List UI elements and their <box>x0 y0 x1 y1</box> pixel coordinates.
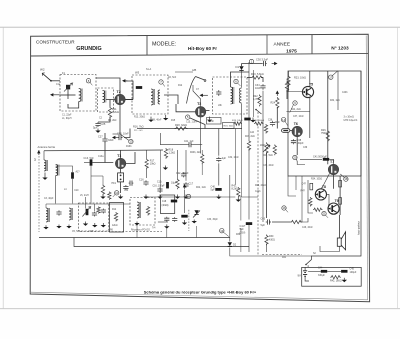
transistor T9 <box>328 199 340 214</box>
test point 1 <box>249 59 253 63</box>
ground R19 <box>175 195 180 199</box>
value R26 <box>321 132 327 135</box>
diode D1 <box>239 66 243 70</box>
svg-text:10kΩ: 10kΩ <box>150 163 156 166</box>
value label R15 <box>171 120 176 122</box>
value label R32, 1kΩ <box>330 100 340 102</box>
wire R23 up <box>288 71 290 76</box>
ground R18 bottom <box>157 195 162 199</box>
dashed to switch <box>262 254 302 256</box>
resistor R17 <box>201 154 204 165</box>
wire D1 up <box>241 64 243 67</box>
dashed bus y231.6 <box>80 231 162 233</box>
svg-text:C19,: C19, <box>157 181 162 184</box>
label D1 <box>236 65 240 69</box>
wire tp6 pointer <box>238 83 241 86</box>
page edge top <box>0 26 400 28</box>
wire R2 up <box>91 176 103 185</box>
capacitor in osc box 2 <box>92 212 97 217</box>
label C43 <box>261 218 266 221</box>
test point 10 <box>115 191 119 195</box>
label C41 <box>313 156 327 159</box>
label R17b <box>150 160 155 163</box>
svg-text:18: 18 <box>344 177 348 181</box>
svg-text:MODELE:: MODELE: <box>152 41 176 47</box>
capacitor C36 10uF <box>270 121 275 127</box>
resistor near L6 <box>146 206 149 216</box>
value label L5, 2mH <box>80 195 89 197</box>
resistor P1 volume <box>265 142 268 154</box>
value label R20b, 4kΩ <box>190 152 201 154</box>
svg-text:33nF: 33nF <box>108 139 114 142</box>
wire top rail to C30 <box>242 63 263 65</box>
capacitor C42b dark <box>246 222 252 225</box>
wire C26 right <box>124 129 130 138</box>
transistor T6 <box>292 122 302 137</box>
wire tp8 pointer <box>90 82 92 85</box>
wire x235 col <box>234 129 236 185</box>
wire detector to vol <box>242 196 259 198</box>
wire C45 lead <box>327 270 341 272</box>
node arrow into Tr2 <box>122 79 127 82</box>
return bus y246.5 <box>74 238 249 247</box>
resistor R2 <box>101 185 104 196</box>
value label L4 <box>64 189 67 191</box>
svg-text:(40kΩ): (40kΩ) <box>162 205 169 207</box>
wire T1 top <box>120 150 122 158</box>
wire R33 right <box>300 218 308 222</box>
label PO GO <box>134 130 143 132</box>
wire Tr2 out right <box>164 95 178 104</box>
svg-text:C17: C17 <box>189 183 194 186</box>
wire vol down <box>266 152 268 218</box>
antenna label W2 <box>40 68 45 72</box>
resistor R29 box <box>339 198 342 205</box>
ground R5 <box>236 198 241 202</box>
svg-text:R23, 10kΩ: R23, 10kΩ <box>294 77 306 80</box>
antenna coil L8 <box>69 208 72 220</box>
coupling coil L2 <box>103 91 106 103</box>
capacitor C19b dark <box>181 215 187 218</box>
svg-text:C10: C10 <box>74 190 79 192</box>
svg-text:C5, 5nF: C5, 5nF <box>72 231 81 233</box>
capacitor C40 4.7uF dark <box>215 188 221 191</box>
value label R13, 20kΩ <box>134 117 145 119</box>
svg-text:R39: R39 <box>236 234 241 236</box>
value label R24, 2kΩ <box>291 109 301 111</box>
wire C41 feed <box>297 161 305 165</box>
supply rail x249 tail <box>248 224 250 252</box>
header divider 2 <box>266 35 268 54</box>
svg-text:R24, 2kΩ: R24, 2kΩ <box>291 109 301 111</box>
svg-text:R9, 2kΩ: R9, 2kΩ <box>108 120 117 122</box>
capacitor C17 <box>183 182 188 188</box>
capacitor C16 5nF <box>143 180 148 186</box>
wire bus drop 2 <box>196 226 198 238</box>
svg-text:C37, 10nF: C37, 10nF <box>293 116 304 118</box>
label C22b <box>153 186 166 188</box>
IF transformer box Tr3 <box>213 77 248 114</box>
resistor R20 5.6k <box>251 76 263 79</box>
value label D3 <box>90 231 94 233</box>
test point 15 <box>186 194 190 198</box>
wire tp14 diag <box>285 121 288 126</box>
wire L2 to T2 base <box>106 99 115 101</box>
label R26 <box>321 129 327 132</box>
transistor T8 <box>315 185 327 200</box>
dashed rod left <box>38 150 40 232</box>
wire x287 col <box>286 90 288 100</box>
svg-text:R19, 18kΩ: R19, 18kΩ <box>232 120 243 122</box>
bus wire y128.5 <box>137 128 242 130</box>
capacitor in AGC block <box>171 200 177 203</box>
capacitor C27 33nF <box>102 137 107 143</box>
wire osc feed 2 <box>94 204 96 211</box>
label R42 <box>330 280 342 283</box>
value label R41 <box>282 257 287 259</box>
potentiometer R volume <box>263 145 270 152</box>
test point 20 <box>293 155 297 159</box>
svg-text:L5, 2mH: L5, 2mH <box>80 195 89 197</box>
trimmer arrow osc <box>82 207 90 217</box>
value label R12 <box>178 85 183 87</box>
wire T6 left <box>290 130 292 132</box>
header row bottom line <box>31 53 369 56</box>
wire under box <box>288 176 296 196</box>
ground below C25 <box>95 129 100 133</box>
wire C13 left lead <box>84 162 90 164</box>
svg-text:HF1: HF1 <box>112 182 117 185</box>
ceramic filter F1 <box>118 173 124 182</box>
node arrow T3 input <box>200 94 208 97</box>
value R5 <box>232 188 239 191</box>
resistor R32 <box>313 208 323 211</box>
wire C1 lead down <box>67 90 69 100</box>
label D2 <box>233 244 237 247</box>
label R30 <box>269 235 274 238</box>
label haut-parleur <box>357 221 361 235</box>
resistor R11 1.2k <box>108 107 111 119</box>
ground C17 <box>183 195 188 199</box>
value label C20 <box>124 190 129 192</box>
transistor T2 <box>115 90 125 105</box>
wire mid col x184.5 <box>184 190 186 214</box>
wire T7 down <box>333 175 335 189</box>
svg-text:R19, 3kΩ: R19, 3kΩ <box>224 125 234 127</box>
value label S2 <box>313 253 317 255</box>
antenna W2 input <box>42 73 52 82</box>
svg-text:10: 10 <box>115 191 119 195</box>
wire C41 line <box>300 158 322 160</box>
ground varicap <box>192 220 197 224</box>
test point 13 <box>129 139 133 143</box>
label C17 <box>189 183 194 186</box>
header label CONSTRUCTEUR <box>36 40 75 45</box>
svg-text:19: 19 <box>220 229 224 233</box>
ground battery box <box>342 278 347 282</box>
node arrow mid up <box>183 184 186 189</box>
ground L7 <box>43 225 48 229</box>
wire T3 base left <box>176 104 195 112</box>
schematic border frame <box>30 34 369 302</box>
label R11 <box>112 107 117 111</box>
svg-text:21: 21 <box>322 212 326 216</box>
wire x240.9 col b <box>240 228 242 252</box>
svg-text:C21, 1μF: C21, 1μF <box>184 141 194 143</box>
wire drop x146.7 a <box>146 150 148 159</box>
svg-text:16: 16 <box>282 206 286 210</box>
capacitor C41 dark <box>323 158 329 161</box>
svg-text:C13a: C13a <box>98 156 104 158</box>
test point 7 <box>159 80 163 84</box>
wire driver col x218.8 b <box>218 163 220 185</box>
capacitor C14 1nF <box>129 181 134 186</box>
svg-text:17: 17 <box>329 75 333 79</box>
resistor in osc box <box>97 207 100 214</box>
node arrow C26 <box>112 136 117 139</box>
wire T3 down <box>200 117 202 154</box>
svg-text:C1a: C1a <box>56 84 61 86</box>
ferrite coil L5 <box>56 165 59 176</box>
resistor R23 10k <box>287 76 290 87</box>
header divider 1 <box>146 36 148 56</box>
wire C13 down <box>90 166 92 204</box>
svg-text:R16b: R16b <box>126 146 132 148</box>
label AGC block2 <box>162 205 169 207</box>
wire T8 base net <box>308 180 313 213</box>
svg-text:C6, 5nF: C6, 5nF <box>168 77 177 79</box>
svg-text:5μF: 5μF <box>211 189 216 192</box>
svg-text:R20b, 4kΩ: R20b, 4kΩ <box>190 152 201 154</box>
label C2uF <box>222 157 227 160</box>
wire T7 to T8 diag <box>321 174 330 189</box>
svg-text:R4?: R4? <box>301 190 306 193</box>
test point 6 <box>234 79 238 83</box>
label C16 <box>139 179 144 182</box>
wire speaker bottom <box>320 246 339 252</box>
wire R11 bottom <box>98 117 110 123</box>
svg-text:C8, 40nF: C8, 40nF <box>152 120 162 122</box>
svg-text:A1?: A1? <box>76 171 81 174</box>
wire tp10 pointer <box>113 195 115 198</box>
capacitor C2uF <box>216 157 221 163</box>
oscillator coil L1 <box>79 89 82 102</box>
label AGC block <box>162 201 167 203</box>
label F1 <box>62 72 66 75</box>
svg-text:C4?: C4? <box>302 183 307 186</box>
wire C27 col <box>104 133 106 138</box>
wire output col x340 <box>339 176 341 215</box>
svg-text:1,2kΩ: 1,2kΩ <box>169 152 176 155</box>
test point 16 <box>282 206 286 210</box>
wire T8-T9 couple <box>327 194 330 205</box>
capacitor in osc box 3 <box>101 209 106 214</box>
ground box D right <box>163 115 168 120</box>
capacitor C22b 100pF <box>157 187 162 192</box>
svg-text:Récepteur PO-GO: Récepteur PO-GO <box>131 229 150 232</box>
header value GRUNDIG <box>76 46 101 52</box>
wire amp col b <box>295 176 297 190</box>
value C36 <box>275 122 281 124</box>
value label C33, 30pF <box>207 219 218 221</box>
svg-text:R34, 100Ω: R34, 100Ω <box>311 179 322 181</box>
label recepteur <box>131 229 150 232</box>
value C34 <box>255 87 261 90</box>
svg-text:PO - GO: PO - GO <box>134 130 143 132</box>
value label C7 <box>196 89 200 91</box>
svg-text:5μF: 5μF <box>93 126 98 130</box>
band switch S1a <box>187 77 206 104</box>
note output trio <box>344 116 355 119</box>
label C30 <box>256 57 269 61</box>
svg-text:W2: W2 <box>40 68 45 72</box>
svg-text:C25: C25 <box>101 122 106 126</box>
wire switch to rail <box>307 265 309 267</box>
svg-text:5μF: 5μF <box>261 224 266 227</box>
resistor R22 4.7k <box>258 95 261 107</box>
svg-text:10kΩ: 10kΩ <box>260 144 266 147</box>
svg-text:T9: T9 <box>335 199 339 203</box>
wire T5 base row <box>286 91 302 93</box>
svg-text:20: 20 <box>293 156 297 160</box>
label C21 <box>184 141 194 143</box>
svg-text:14: 14 <box>282 118 286 122</box>
wire L4 top to rail <box>43 151 45 160</box>
header label ANNEE <box>274 42 291 48</box>
wire T3 collector right <box>206 110 210 112</box>
wire tp21 pointer <box>326 215 328 218</box>
test point 17 <box>329 75 333 79</box>
label C18 <box>157 181 162 184</box>
value R17b <box>150 163 156 166</box>
svg-text:13: 13 <box>129 140 133 144</box>
svg-text:haut-parleur: haut-parleur <box>357 221 361 235</box>
resistor R28 100k <box>254 122 264 125</box>
value label C44b <box>255 191 261 193</box>
ground right of T3 <box>207 117 212 122</box>
wire filter down <box>120 182 122 193</box>
label C44 <box>318 267 323 270</box>
wire T6 bottom <box>296 137 298 155</box>
svg-text:C13, 5nF: C13, 5nF <box>84 157 95 160</box>
svg-text:T7: T7 <box>330 160 334 164</box>
value label C13a <box>98 156 104 158</box>
value label C15, 1,5nF <box>186 122 198 124</box>
wire T2 collector right <box>125 99 133 101</box>
value C45 <box>350 271 357 274</box>
svg-text:15: 15 <box>187 195 191 199</box>
svg-text:C18: C18 <box>162 201 167 203</box>
wire y222 left <box>158 221 168 223</box>
capacitor C43 5uF <box>266 219 271 224</box>
label R5 <box>232 185 237 188</box>
label R28b <box>175 124 187 127</box>
svg-text:8,2kΩ: 8,2kΩ <box>232 188 239 191</box>
svg-text:Hit-Boy 60 Fr: Hit-Boy 60 Fr <box>188 46 217 51</box>
header label MODELE <box>152 41 176 47</box>
IF coil Tr3 primary <box>231 87 234 104</box>
capacitor C34 100nF <box>260 84 265 90</box>
oscillator box <box>79 203 109 231</box>
wire rail from amp <box>312 71 362 260</box>
wire tp16 pointer <box>286 210 288 213</box>
loudspeaker LS <box>337 232 345 250</box>
label antenne ferrite <box>38 145 56 149</box>
svg-text:GRUNDIG: GRUNDIG <box>76 46 101 52</box>
wire T2 to Tr2 <box>125 81 133 100</box>
wire bus drop 1b <box>166 228 168 238</box>
resistor R18 1.2k <box>164 148 167 159</box>
wire mid row y197 <box>146 196 235 198</box>
capacitor C18 10uF dark <box>166 182 169 188</box>
ground L8 <box>66 225 71 229</box>
svg-text:C30 3,3nF: C30 3,3nF <box>256 57 269 61</box>
wire tp18 pointer <box>340 174 344 178</box>
value label C2 <box>99 118 103 120</box>
crystal element X1 <box>282 129 290 133</box>
svg-text:C15, 1,5nF: C15, 1,5nF <box>186 122 198 124</box>
svg-text:R28, 32kΩ: R28, 32kΩ <box>175 124 187 127</box>
svg-text:C39: C39 <box>303 147 308 149</box>
svg-text:C44: C44 <box>318 267 323 270</box>
supply rail x249 <box>248 62 250 140</box>
resistor R17b 10k <box>145 159 148 170</box>
wire T5 emitter down <box>309 97 311 138</box>
transistor T5 <box>302 82 314 97</box>
resistor R24 40k <box>276 97 279 109</box>
value C43 <box>261 224 266 227</box>
transistor T3 <box>195 102 205 117</box>
label C40 <box>211 186 216 189</box>
node arrow AGC up <box>276 91 279 96</box>
resistor R16 7k <box>175 127 188 130</box>
value label C46, 40nF <box>302 227 313 229</box>
capacitor C24b <box>164 217 169 222</box>
ground osc 1 <box>83 222 88 226</box>
wire R17 col <box>201 150 203 154</box>
wire R20 left <box>247 77 251 79</box>
resistor R19 <box>176 179 179 190</box>
header divider 3 <box>311 35 313 54</box>
dashed net AF section <box>257 112 259 255</box>
svg-text:C36: C36 <box>268 119 273 121</box>
label W3 <box>135 71 140 75</box>
label C38 <box>297 139 302 142</box>
wire feed into L1 <box>60 94 76 96</box>
wire antenna to box L1 <box>51 80 60 82</box>
resistor R29b <box>264 124 267 134</box>
wire filter bar up <box>56 166 73 172</box>
svg-text:A10: A10 <box>250 131 255 134</box>
ground C16 <box>143 195 148 199</box>
value label C32, 10nF <box>228 157 239 159</box>
capacitor C21 1uF <box>188 142 193 147</box>
wire L5 down <box>55 176 57 204</box>
ground C34 col <box>250 118 255 123</box>
value C42 <box>240 228 245 231</box>
IF filter dark bar <box>71 172 74 178</box>
ferrite coil L4 <box>44 160 47 171</box>
capacitor C30 3.3nF <box>262 61 266 66</box>
value label R39 <box>236 234 241 236</box>
wire tp9 diag <box>290 105 294 113</box>
value C38 <box>297 142 305 145</box>
value C25 <box>93 126 98 130</box>
ground filter <box>118 195 123 199</box>
node arrow AF out <box>272 62 278 65</box>
ground Tr2 sec <box>148 117 153 122</box>
value label R34, 100Ω <box>311 179 322 181</box>
